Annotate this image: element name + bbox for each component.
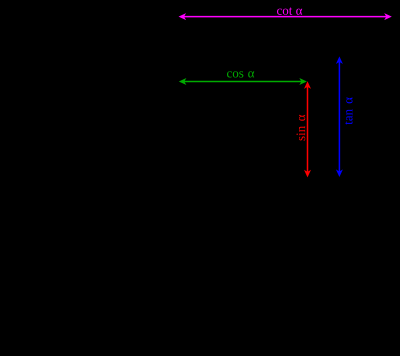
label cos alpha: [227, 71, 254, 77]
label tan alpha (rotated 90 ccw): [345, 97, 352, 124]
label cot alpha: [277, 7, 302, 14]
node sin top arrowhead: [304, 81, 311, 89]
node cos right arrowhead: [299, 78, 307, 85]
node sin bottom arrowhead: [304, 170, 311, 178]
wire sin alpha line (red vertical): [307, 86, 309, 173]
label sin alpha (rotated 90 ccw): [296, 115, 305, 141]
node cos left arrowhead: [179, 78, 187, 85]
wire tan alpha line (blue vertical): [338, 61, 340, 173]
wire cos alpha line (green horizontal): [183, 81, 302, 83]
node cot right arrowhead: [384, 13, 392, 20]
wire cot alpha line (magenta horizontal): [183, 16, 387, 18]
node cot left arrowhead: [179, 13, 187, 20]
node tan bottom arrowhead: [336, 169, 343, 177]
node tan top arrowhead: [336, 56, 343, 64]
